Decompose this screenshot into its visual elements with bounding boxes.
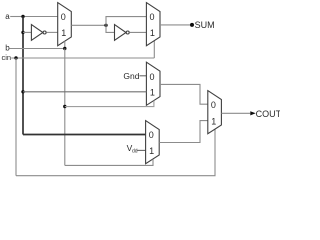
svg-text:1: 1 — [61, 28, 66, 38]
COUT arrowhead — [250, 111, 255, 115]
wire inverter2 output to mux2 1-input — [130, 31, 147, 33]
wire cin vertical down — [15, 58, 17, 176]
wire node up to mux2 0-input — [106, 17, 146, 26]
mux U7 (carry output mux) — [208, 91, 222, 134]
svg-text:a: a — [5, 12, 10, 21]
wire mux1 select from b — [64, 41, 66, 48]
svg-text:COUT: COUT — [256, 109, 280, 119]
inverter U1 — [31, 25, 46, 41]
wire a to mux1 0-input — [23, 16, 58, 18]
svg-text:0: 0 — [150, 72, 155, 82]
svg-text:0: 0 — [149, 130, 154, 140]
svg-text:1: 1 — [149, 146, 154, 156]
mux U6 (a/Vdd mux) — [146, 121, 160, 164]
junction cin — [14, 56, 17, 59]
wire a vertical (black net) — [22, 17, 24, 135]
wire cin input — [11, 57, 154, 59]
svg-text:1: 1 — [211, 116, 216, 126]
mux U2 (top-left 2:1 mux) — [58, 3, 72, 46]
SUM port dot — [190, 23, 194, 27]
svg-text:0: 0 — [211, 100, 216, 110]
svg-text:0: 0 — [61, 12, 66, 22]
mux U4 (top-right 2:1 mux) — [146, 3, 160, 46]
wire SUM output — [160, 24, 191, 26]
junction b select — [63, 47, 66, 50]
wire a to mux3 1-input — [23, 91, 146, 93]
wire a black to mux4 0-input — [23, 134, 146, 136]
wire inverter1 input stub — [23, 31, 31, 33]
junction b to mux3 select — [63, 105, 66, 108]
wire b to mux4 select — [65, 159, 153, 165]
wire Vdd stub to mux4 1-input — [137, 149, 146, 151]
wire cin bottom loop to mux5 select — [16, 127, 215, 176]
wire mux4 output to mux5 1-input — [159, 121, 208, 143]
inverter U3 — [115, 25, 130, 41]
wire mux3 output to mux5 0-input — [160, 84, 208, 104]
wire b to mux3 select — [65, 101, 154, 107]
svg-text:Gnd: Gnd — [123, 71, 139, 81]
wire COUT output — [221, 112, 250, 114]
wire inverter1 output to mux1 1-input — [47, 31, 58, 33]
junction a to inverter1 — [21, 31, 24, 34]
svg-text:SUM: SUM — [195, 20, 215, 30]
wire a input stub — [10, 16, 23, 18]
junction mux1 output node — [104, 24, 107, 27]
junction a at top — [21, 15, 24, 18]
wire mux2 select riser from cin — [153, 41, 155, 58]
wire Gnd stub to mux3 0-input — [140, 75, 147, 77]
svg-text:dd: dd — [132, 149, 138, 155]
wire node down to inverter2 input — [106, 25, 115, 32]
svg-text:cin: cin — [2, 53, 12, 62]
junction a to mux3 — [21, 90, 24, 93]
wire b input — [10, 48, 65, 50]
wire b vertical — [64, 49, 66, 166]
svg-text:1: 1 — [150, 88, 155, 98]
svg-text:b: b — [5, 44, 10, 53]
svg-text:0: 0 — [150, 12, 155, 22]
svg-text:1: 1 — [150, 28, 155, 38]
mux U5 (Gnd/a mux) — [146, 62, 160, 105]
wire mux1 output — [71, 24, 106, 26]
